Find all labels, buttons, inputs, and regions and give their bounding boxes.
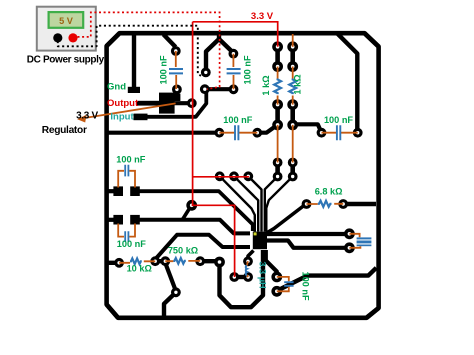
resistor R2 1k zigzag: [289, 79, 296, 95]
node: pad col1 r4: [272, 120, 283, 131]
wire: trapezoid trace pad to IC pin2: [156, 235, 251, 259]
resistor R1 1k zigzag: [274, 79, 281, 95]
regulator input pin bar: [134, 114, 148, 121]
capacitor C2 plates: [227, 69, 241, 73]
node: right cap C4 right pad: [353, 128, 363, 138]
node: 3.3V fan pad A: [215, 171, 225, 181]
wire: Y trace from top edge to gnd-in pad: [206, 34, 219, 72]
wire: 5V input bar between pads: [205, 87, 234, 91]
capacitor C5 smd hooks: [118, 171, 135, 188]
wire: Y trace right branch to C2 top pad: [219, 39, 233, 53]
resistor R5 6.8k leads: [307, 203, 344, 205]
node: 6.8k left pad: [302, 199, 312, 209]
crystal X1 body bars: [357, 237, 372, 246]
regulator output pin bar: [136, 101, 161, 106]
wire: IC to 6.8k left pad: [267, 206, 305, 234]
board outline corner chamfer fix: [107, 33, 379, 318]
node: U loop pad: [214, 257, 225, 268]
wire: inner ground ring trace top-right: [337, 33, 357, 129]
svg-text:3.3 V: 3.3 V: [76, 111, 98, 122]
node: 5V input pad: [200, 84, 210, 94]
wire: mid 100nF cap left pad to left board edge: [107, 131, 219, 135]
node: pad col1 r3: [272, 99, 283, 110]
annotation arrowhead: [77, 115, 86, 123]
svg-text:3.3 µH: 3.3 µH: [257, 261, 267, 289]
capacitor C6 smd hooks: [118, 224, 135, 237]
wire: IC to vertical cap top pad: [266, 250, 277, 277]
capacitor C3 plates: [235, 125, 238, 140]
IC pin1 marker: [254, 232, 257, 235]
wire: IC bottom pin to inductor top pad: [248, 251, 254, 262]
power supply display: [49, 12, 84, 28]
capacitor C7 hooks: [277, 277, 289, 291]
svg-text:750 kΩ: 750 kΩ: [168, 246, 198, 256]
node: regulator output net pad: [186, 200, 197, 211]
node: pad col1 r6: [273, 172, 283, 182]
regulator tab: [172, 94, 181, 101]
wire lead: col2 r4 to r5: [292, 125, 294, 163]
svg-text:100 nF: 100 nF: [159, 55, 169, 84]
node: inductor top pad: [243, 256, 253, 266]
wire: col2 pad to right 100nF cap: [293, 124, 322, 132]
wire: pad to lower-left pad: [165, 263, 175, 290]
node: right cap C4 left pad: [317, 128, 327, 138]
wire: IC to crystal pad lower: [267, 241, 350, 248]
wire: 3.3V red branch to inductor pad: [192, 205, 235, 277]
svg-text:100 nF: 100 nF: [324, 115, 353, 125]
node: pad col2 r3: [287, 99, 298, 110]
svg-text:Input: Input: [110, 111, 134, 122]
node: pad col2 r6: [288, 172, 298, 182]
node: pad col2 r2: [287, 61, 298, 72]
regulator U1 body: [159, 93, 175, 114]
wire: 5V to regulator input: [141, 90, 206, 117]
wire: black dotted gnd supply lead: [58, 26, 201, 76]
smd cap C6 pad squares: [113, 215, 123, 225]
capacitor C4 leads: [322, 132, 358, 134]
node: mid cap C3 left pad: [214, 128, 224, 138]
wire: U loop trace: [220, 250, 264, 307]
node: vertical cap bottom pad: [271, 286, 282, 297]
resistor R5 6.8k zigzag: [318, 201, 332, 207]
node: crystal upper pad: [344, 228, 355, 239]
node: 3.3V fan pad C: [243, 171, 253, 181]
wire: gnd stub trace from top edge: [132, 34, 136, 87]
wire: fan trace col1 pad to IC: [265, 177, 278, 232]
svg-text:3.3 V: 3.3 V: [251, 11, 274, 22]
capacitor C6 plates: [125, 231, 128, 242]
capacitor C1 plates: [169, 69, 183, 73]
wire: fan trace pad B to IC: [234, 176, 258, 231]
node: 3.3V out pad: [229, 272, 239, 282]
wire: bar between 750k right pads: [200, 259, 219, 263]
wire: regulator output to pad: [174, 101, 192, 105]
capacitor C4 plates: [337, 125, 340, 140]
wire: bar between 10k pads: [155, 259, 165, 263]
node: C1 bottom pad: [172, 85, 182, 95]
svg-text:DC Power supply: DC Power supply: [27, 55, 105, 66]
IC U2 body: [253, 232, 267, 250]
board outline: [107, 33, 379, 318]
resistor R1 1k lead: [277, 67, 279, 105]
svg-text:Output: Output: [107, 98, 139, 109]
wire: lower-left pad to bottom edge: [164, 292, 176, 316]
node: pad col2 r4: [287, 120, 298, 131]
svg-text:100 nF: 100 nF: [116, 154, 145, 164]
svg-text:1 kΩ: 1 kΩ: [293, 74, 303, 94]
capacitor C5 plates: [125, 165, 128, 177]
wire: stub from output-net pad down to row2 trace: [183, 206, 192, 220]
wire: IC to crystal pad upper: [267, 232, 350, 236]
smd cap C5 pad squares: [113, 186, 123, 196]
node: C2 top pad: [229, 49, 239, 59]
svg-text:Regulator: Regulator: [42, 125, 87, 136]
capacitor C2 lead: [232, 54, 234, 90]
wire lead: col1 r4 to r5: [277, 125, 279, 163]
wire: left edge to 10k pad: [107, 261, 119, 265]
node: vertical cap top pad: [271, 272, 282, 283]
wire: 3.3V red branch to fan pads: [193, 176, 250, 178]
wire: fan trace col2 pad to IC: [266, 177, 292, 232]
annotation arrow to regulator: [82, 103, 176, 118]
wire: fan trace pad C to IC: [248, 176, 261, 231]
wire: bar between inductor bottom pads: [234, 275, 248, 279]
node: 3.3V rail pad col1 r1: [272, 41, 283, 52]
svg-text:6.8 kΩ: 6.8 kΩ: [315, 186, 343, 196]
wire: 3.3V red main vertical: [192, 22, 194, 206]
wire: red dotted 5V supply lead: [78, 12, 220, 89]
node: 6.8k right pad: [338, 199, 348, 209]
node: 10k right pad: [150, 256, 160, 266]
wire: 6.8k right pad to board edge: [343, 202, 376, 206]
DC power supply box: [37, 7, 96, 51]
power supply red terminal: [68, 33, 77, 42]
wire: 3.3V red top horizontal: [193, 22, 278, 47]
capacitor C3 leads: [219, 132, 257, 134]
power supply black terminal: [53, 33, 62, 42]
resistor R4 750k leads: [165, 260, 200, 262]
wire: smd cap row1 trace right to IC: [140, 191, 253, 231]
node: C2 bottom pad: [229, 84, 239, 94]
svg-text:100 nF: 100 nF: [300, 271, 310, 300]
node: 10k left pad: [114, 258, 124, 268]
svg-text:1 kΩ: 1 kΩ: [261, 75, 271, 95]
resistor R4 750k zigzag: [173, 258, 185, 264]
inductor L1 coil: [246, 266, 247, 276]
svg-text:10 kΩ: 10 kΩ: [127, 264, 152, 274]
node: 750k right pad: [195, 256, 205, 266]
svg-text:100 nF: 100 nF: [117, 239, 146, 249]
wire: vertical cap bottom pad to right board edge: [277, 268, 377, 292]
node: lower-left trace pad: [171, 287, 181, 297]
wire: fan trace pad A to IC: [220, 176, 255, 231]
resistor R3 10k leads: [119, 261, 155, 263]
capacitor C7 plates: [284, 282, 293, 286]
resistor R3 10k zigzag: [130, 259, 142, 265]
node: pad col1 r2: [272, 61, 283, 72]
node: gnd input pad: [201, 68, 211, 78]
node: mid cap C3 right pad: [252, 128, 262, 138]
svg-text:100 nF: 100 nF: [243, 55, 253, 84]
svg-text:Gnd: Gnd: [107, 82, 126, 93]
wire: smd cap row2 trace right to IC pin: [140, 220, 251, 234]
node: inductor bottom pad: [243, 272, 253, 282]
wire: col1 pad to mid 100nF cap right pad: [257, 126, 276, 133]
node: pad col2 r1: [287, 41, 298, 52]
node: pad col2 r5: [288, 158, 298, 168]
wire: column bars between pad rows (1k ladder): [278, 47, 293, 177]
node: 3.3V fan pad B: [229, 171, 239, 181]
svg-text:5 V: 5 V: [59, 16, 74, 26]
gnd trace end bar: [128, 87, 140, 93]
node: regulator output pad: [187, 98, 197, 108]
crystal X1 hooks: [349, 234, 360, 248]
node: pad col1 r5: [273, 158, 283, 168]
wire: smd cap row1 trace left: [107, 189, 114, 193]
wire: smd cap row2 trace left: [107, 218, 114, 222]
node: C1 top pad: [171, 46, 181, 56]
capacitor C1 lead: [175, 51, 177, 89]
wire lead: col2 pad to top edge: [292, 34, 294, 47]
wire: diagonal from top edge to C1 top pad: [164, 35, 176, 48]
node: crystal lower pad: [344, 242, 355, 253]
inductor L1 leads: [247, 261, 248, 277]
resistor R2 1k lead: [292, 67, 294, 105]
svg-text:100 nF: 100 nF: [223, 115, 252, 125]
node: 750k left pad: [160, 256, 170, 266]
